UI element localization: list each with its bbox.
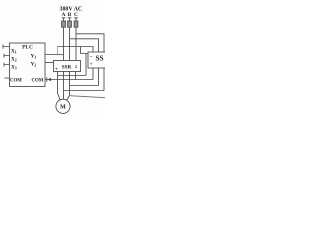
svg-text:SS: SS (96, 54, 104, 63)
svg-text:COM: COM (10, 79, 22, 84)
svg-text:+: + (90, 61, 93, 67)
svg-text:PLC: PLC (22, 45, 33, 51)
svg-text:+: + (55, 67, 58, 73)
svg-text:−: − (90, 54, 93, 60)
svg-text:A: A (61, 12, 65, 18)
svg-text:SSR: SSR (62, 64, 72, 70)
svg-text:2: 2 (75, 64, 77, 69)
svg-text:COM: COM (32, 79, 44, 84)
svg-text:B: B (68, 12, 72, 18)
svg-text:M: M (60, 105, 66, 111)
svg-text:C: C (74, 12, 78, 18)
